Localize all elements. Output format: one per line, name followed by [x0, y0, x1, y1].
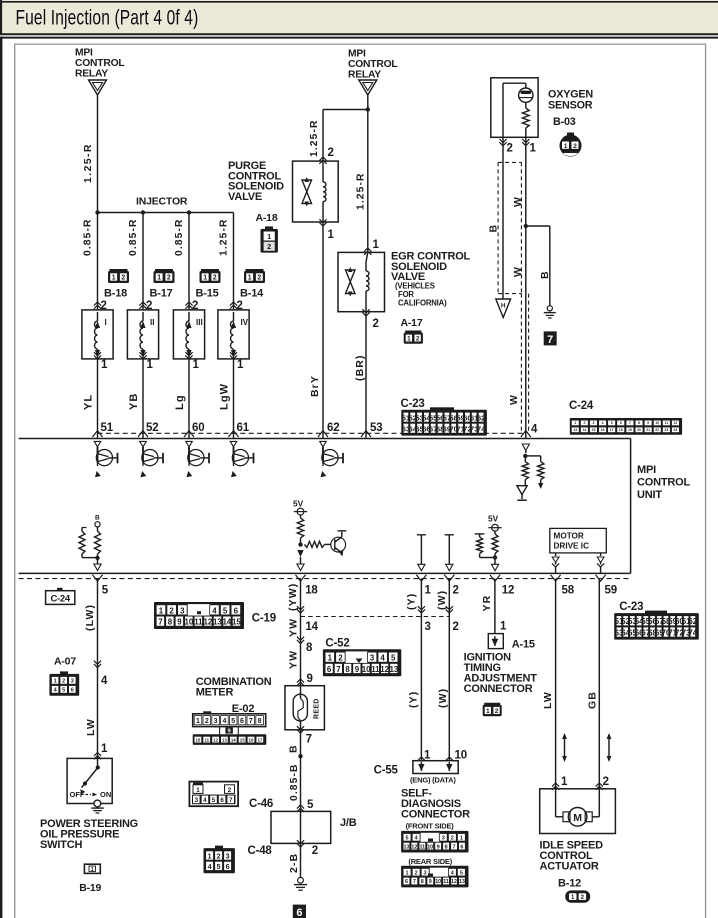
svg-text:UNIT: UNIT	[637, 489, 662, 501]
label (W) lower	[437, 688, 449, 708]
node pin12	[491, 555, 498, 571]
wire junction to body ground	[526, 226, 550, 306]
pin 12 label already added; label YR	[481, 595, 493, 612]
wire purge branch drop	[322, 110, 324, 162]
svg-text:10: 10	[185, 618, 194, 627]
svg-text:2: 2	[169, 606, 174, 615]
svg-text:ON: ON	[100, 790, 111, 799]
label B (O2 ground wire)	[488, 224, 500, 233]
svg-text:METER: METER	[196, 687, 234, 699]
svg-text:1: 1	[564, 143, 568, 150]
svg-text:1.25-R: 1.25-R	[219, 218, 230, 256]
svg-text:1: 1	[112, 275, 116, 282]
svg-text:(Y): (Y)	[406, 593, 418, 610]
5V supply (pin 12)	[488, 514, 502, 534]
svg-text:14: 14	[305, 621, 318, 633]
label MPI CONTROL UNIT	[637, 464, 690, 501]
svg-text:2: 2	[213, 275, 217, 282]
label IGNITION TIMING ADJUSTMENT CONNECTOR	[464, 652, 538, 696]
purge valve pin 1	[319, 219, 334, 241]
svg-text:4: 4	[222, 718, 226, 725]
rear side connector block	[401, 866, 468, 888]
label 1.25-R (purge wire)	[309, 119, 320, 157]
svg-text:(ENG) (DATA): (ENG) (DATA)	[410, 776, 456, 785]
svg-text:GB: GB	[586, 691, 598, 709]
svg-text:2: 2	[167, 275, 171, 282]
wire purge to ECU pin 62	[322, 222, 324, 439]
svg-text:4: 4	[415, 836, 418, 842]
svg-text:C-23: C-23	[619, 601, 643, 613]
svg-text:Fuel Injection (Part 4 0f 4): Fuel Injection (Part 4 0f 4)	[16, 5, 199, 29]
C-48 label	[248, 845, 273, 857]
pin 2 (J/B)	[297, 840, 318, 857]
C-55 box	[413, 761, 458, 774]
svg-text:51: 51	[101, 422, 114, 434]
resistor (pin4 right)	[538, 462, 544, 489]
svg-text:VALVE: VALVE	[228, 191, 262, 203]
A-07 label	[54, 656, 76, 668]
svg-text:6: 6	[327, 665, 332, 674]
svg-text:12: 12	[204, 618, 213, 627]
svg-text:MPI: MPI	[637, 464, 656, 476]
svg-text:3: 3	[424, 870, 427, 876]
svg-text:5V: 5V	[293, 499, 304, 509]
label FRONT SIDE	[406, 822, 455, 831]
svg-text:10: 10	[427, 844, 433, 850]
zener to rail (pin4)	[517, 480, 527, 501]
svg-text:8: 8	[345, 665, 350, 674]
svg-text:8: 8	[258, 718, 262, 725]
label YB	[128, 393, 140, 410]
svg-text:8: 8	[445, 844, 448, 850]
label A-17	[401, 317, 423, 329]
svg-text:MOTOR: MOTOR	[554, 532, 584, 541]
svg-text:LW: LW	[85, 718, 97, 736]
ECU pin 52	[138, 422, 158, 437]
label VEHICLES FOR CALIFORNIA	[395, 282, 447, 308]
wire injector 1 to ECU	[97, 359, 99, 439]
idle speed control actuator box	[540, 789, 616, 834]
svg-text:MPI: MPI	[348, 49, 366, 60]
svg-text:5: 5	[406, 836, 409, 842]
A-15 box	[488, 634, 503, 649]
pin 1 (A-15)	[500, 621, 507, 633]
injector 1 pin 2	[94, 300, 107, 312]
svg-text:2: 2	[453, 585, 459, 597]
svg-text:74: 74	[477, 425, 486, 434]
svg-text:3: 3	[370, 654, 375, 663]
switch OFF ON labels	[70, 790, 112, 799]
svg-text:2: 2	[312, 845, 318, 857]
svg-text:C-48: C-48	[248, 845, 273, 857]
svg-text:4: 4	[212, 606, 217, 615]
svg-text:52: 52	[146, 422, 158, 434]
svg-text:13: 13	[404, 844, 410, 850]
svg-text:RELAY: RELAY	[348, 70, 381, 81]
label PURGE CONTROL SOLENOID VALVE	[228, 160, 284, 203]
svg-text:59: 59	[605, 585, 617, 597]
svg-text:12: 12	[213, 737, 218, 742]
svg-text:17: 17	[257, 737, 262, 742]
svg-text:YL: YL	[83, 394, 95, 410]
svg-text:4: 4	[380, 654, 385, 663]
switch lever	[80, 758, 100, 794]
svg-text:B-15: B-15	[196, 288, 219, 300]
svg-text:15: 15	[232, 618, 241, 627]
power steering switch box	[67, 758, 112, 803]
oxygen sensor box	[491, 78, 538, 138]
wire relay1 to injector bus	[97, 95, 99, 213]
svg-text:B: B	[539, 270, 551, 279]
purge control solenoid valve box	[293, 161, 339, 222]
svg-text:6: 6	[296, 907, 302, 918]
injector 4 (box with coil)	[218, 310, 249, 359]
svg-text:7: 7	[229, 797, 233, 804]
svg-text:12: 12	[380, 665, 389, 674]
svg-text:74: 74	[688, 628, 697, 637]
ECU pin 60	[184, 422, 204, 437]
svg-text:5: 5	[217, 864, 221, 871]
pin4 input arrow	[522, 444, 529, 453]
wire LW (pin 58)	[555, 579, 557, 789]
ISC pin 1	[552, 776, 568, 790]
front side connector block	[401, 831, 468, 853]
label 2-B	[288, 853, 300, 873]
label POWER STEERING OIL PRESSURE SWITCH	[40, 818, 138, 851]
label B-17	[150, 288, 173, 300]
svg-text:1: 1	[407, 335, 411, 342]
pin 1 (switch)	[94, 743, 108, 759]
label LW	[85, 718, 97, 736]
wire pin5 to switch	[97, 579, 99, 759]
svg-text:1: 1	[147, 359, 154, 371]
wire relay2 down	[367, 95, 369, 252]
driver transistor (pin 60)	[186, 441, 209, 477]
label GB (ISC)	[586, 691, 598, 709]
svg-text:13: 13	[573, 428, 577, 432]
svg-text:2: 2	[228, 787, 232, 794]
svg-text:3: 3	[195, 797, 199, 804]
svg-text:2: 2	[451, 836, 454, 842]
svg-text:C-24: C-24	[50, 593, 70, 604]
driver transistor (pin 61)	[230, 441, 253, 477]
internal pull line (pin 2)	[445, 535, 454, 571]
wire injector 2 drop	[142, 213, 144, 310]
C-52 label	[325, 638, 349, 650]
label COMBINATION METER	[196, 676, 272, 699]
svg-text:1: 1	[101, 359, 108, 371]
svg-text:13: 13	[459, 879, 465, 885]
C-24 label (right)	[569, 400, 594, 412]
resistor (pin4 left)	[522, 456, 528, 480]
wire W (O2 pin1) to ECU pin 4	[525, 137, 527, 438]
svg-text:17: 17	[610, 428, 614, 432]
svg-text:13: 13	[213, 618, 222, 627]
svg-text:1: 1	[486, 708, 490, 715]
svg-text:H: H	[501, 303, 506, 310]
svg-text:62: 62	[477, 414, 486, 423]
MPI control relay (right) symbol	[359, 80, 377, 95]
svg-text:6: 6	[220, 797, 224, 804]
svg-text:2: 2	[62, 679, 65, 685]
svg-text:9: 9	[307, 673, 313, 685]
shield dashed box (B wire)	[498, 162, 521, 293]
diode arrow (pin18)	[297, 550, 304, 571]
wire injector 3 to ECU	[188, 359, 190, 439]
svg-text:BrY: BrY	[309, 375, 321, 397]
svg-text:2: 2	[217, 854, 221, 861]
content left border	[0, 37, 2, 918]
label 0.85-B	[289, 763, 300, 801]
purge valve coil	[323, 161, 326, 222]
ECU bottom pin 2	[444, 575, 458, 597]
wire injector 3 drop	[188, 213, 190, 310]
connector badge A-18	[261, 226, 278, 252]
svg-text:SWITCH: SWITCH	[40, 839, 82, 851]
C-23 connector (bottom)	[614, 611, 699, 640]
svg-text:A-18: A-18	[256, 212, 278, 224]
svg-text:18: 18	[305, 585, 318, 597]
label B-03	[553, 116, 576, 128]
svg-text:(REAR SIDE): (REAR SIDE)	[408, 857, 452, 866]
wire injector 2 to ECU	[142, 359, 144, 439]
ECU bottom pin 12	[490, 575, 514, 597]
svg-text:60: 60	[192, 422, 204, 434]
svg-text:53: 53	[370, 422, 382, 434]
svg-text:DRIVE IC: DRIVE IC	[554, 542, 590, 551]
svg-text:3: 3	[226, 854, 230, 861]
MPI control relay (left) label	[75, 48, 125, 80]
svg-text:3: 3	[593, 421, 595, 425]
svg-text:C-55: C-55	[374, 765, 399, 777]
svg-text:5: 5	[611, 421, 613, 425]
svg-text:8: 8	[638, 421, 640, 425]
wire B (O2 pin2) to ground	[502, 137, 504, 299]
svg-text:4: 4	[531, 424, 538, 436]
svg-text:8: 8	[421, 879, 424, 885]
header title	[16, 5, 199, 29]
MPI unit top dashed edge	[98, 432, 526, 434]
svg-text:6: 6	[620, 421, 622, 425]
svg-text:5: 5	[223, 606, 228, 615]
svg-text:1.25-R: 1.25-R	[356, 172, 367, 210]
svg-text:OFF: OFF	[70, 790, 85, 799]
connector badge (ignition timing)	[483, 703, 502, 717]
EGR valve symbol	[346, 267, 356, 297]
svg-text:5: 5	[102, 585, 109, 597]
pin 7 (meter out)	[297, 726, 312, 745]
label E-02	[232, 703, 255, 715]
EGR valve pin 1	[364, 239, 379, 255]
svg-text:SENSOR: SENSOR	[548, 99, 593, 111]
svg-text:1: 1	[248, 275, 252, 282]
monitor transistor (pin18)	[331, 531, 347, 557]
svg-text:W: W	[512, 266, 524, 277]
svg-text:1: 1	[373, 239, 380, 251]
svg-text:2: 2	[267, 242, 271, 251]
svg-text:J/B: J/B	[340, 817, 357, 829]
label (BR)	[354, 354, 366, 381]
svg-text:ACTUATOR: ACTUATOR	[540, 861, 599, 873]
svg-text:14: 14	[583, 428, 587, 432]
svg-text:5: 5	[460, 870, 463, 876]
oxygen sensor internals	[503, 83, 533, 137]
svg-text:62: 62	[688, 617, 697, 626]
svg-text:C-24: C-24	[569, 400, 594, 412]
svg-text:2-B: 2-B	[288, 853, 300, 873]
EGR control solenoid valve box	[338, 252, 385, 311]
svg-text:11: 11	[371, 665, 380, 674]
driver transistor (pin 62)	[320, 441, 343, 477]
svg-text:LW: LW	[542, 691, 554, 709]
svg-text:24: 24	[674, 428, 678, 432]
svg-text:C-52: C-52	[325, 638, 349, 650]
C-24 outline box (left)	[46, 588, 75, 605]
svg-text:10: 10	[455, 750, 467, 762]
label W (upper)	[512, 196, 524, 207]
svg-text:10: 10	[655, 421, 659, 425]
svg-text:W: W	[512, 196, 524, 207]
svg-text:1: 1	[193, 359, 200, 371]
svg-text:1.25-R: 1.25-R	[309, 119, 320, 157]
svg-text:Lg: Lg	[174, 394, 186, 410]
svg-text:5: 5	[307, 799, 314, 811]
svg-text:B-18: B-18	[104, 288, 127, 300]
svg-text:RELAY: RELAY	[75, 69, 108, 80]
svg-text:19: 19	[628, 428, 632, 432]
ISC motor	[556, 789, 600, 826]
svg-text:YW: YW	[288, 650, 300, 669]
svg-text:11: 11	[204, 737, 209, 742]
svg-text:9: 9	[228, 729, 231, 735]
C-23 connector (mid)	[401, 407, 487, 435]
svg-text:(BR): (BR)	[354, 354, 366, 381]
svg-text:2: 2	[257, 275, 261, 282]
svg-text:5: 5	[212, 797, 216, 804]
svg-text:7: 7	[249, 718, 253, 725]
svg-text:1: 1	[328, 654, 333, 663]
label 1.25-R (relay1 wire)	[83, 143, 94, 183]
svg-text:I: I	[105, 318, 107, 327]
resistor pair above pin 5	[79, 515, 101, 571]
svg-text:12: 12	[411, 844, 417, 850]
svg-text:1: 1	[328, 229, 335, 241]
svg-text:7: 7	[547, 334, 553, 346]
label LgW	[219, 383, 231, 410]
svg-text:13: 13	[390, 665, 399, 674]
ground triangle H	[496, 299, 511, 318]
svg-text:(W): (W)	[437, 688, 449, 708]
svg-text:4: 4	[203, 797, 207, 804]
internal pull line (pin 1)	[417, 535, 426, 571]
svg-text:1: 1	[424, 750, 431, 762]
svg-text:11: 11	[443, 879, 449, 885]
MPI control relay (left) symbol	[89, 80, 107, 95]
motor drive output (pin 59)	[597, 553, 604, 574]
5V supply (pin 18)	[293, 499, 307, 518]
label SELF-DIAGNOSIS CONNECTOR	[401, 788, 470, 821]
svg-text:4: 4	[208, 864, 212, 871]
svg-text:0.85-B: 0.85-B	[289, 763, 300, 801]
label B-15	[196, 288, 219, 300]
svg-text:CONTROL: CONTROL	[348, 59, 398, 70]
label (Y) lower	[408, 691, 420, 708]
svg-text:A-07: A-07	[54, 656, 76, 668]
label INJECTOR	[136, 196, 188, 208]
svg-text:7: 7	[453, 844, 456, 850]
svg-text:21: 21	[646, 428, 650, 432]
svg-text:2: 2	[507, 143, 513, 155]
svg-text:10: 10	[435, 879, 441, 885]
svg-text:C-46: C-46	[249, 798, 273, 810]
svg-text:61: 61	[237, 422, 250, 434]
ECU pin 4	[521, 424, 538, 438]
svg-text:CALIFORNIA): CALIFORNIA)	[398, 298, 447, 307]
svg-text:1: 1	[574, 421, 576, 425]
connector badge B-15	[200, 269, 221, 283]
label IDLE SPEED CONTROL ACTUATOR	[540, 840, 604, 873]
svg-text:4: 4	[101, 675, 108, 687]
C-19 label	[252, 613, 276, 625]
A-15 label	[512, 639, 535, 651]
pin 1 (diag)	[418, 750, 431, 762]
flow arrow (GB)	[607, 733, 612, 762]
svg-text:1: 1	[159, 606, 164, 615]
svg-text:2: 2	[495, 708, 499, 715]
svg-text:11: 11	[194, 618, 203, 627]
svg-text:CONNECTOR: CONNECTOR	[464, 683, 533, 695]
svg-text:1: 1	[157, 275, 161, 282]
A-07 connector block	[49, 671, 79, 695]
svg-text:11: 11	[419, 844, 425, 850]
ECU bottom pin 5	[93, 575, 109, 597]
svg-text:1: 1	[196, 787, 200, 794]
svg-text:3: 3	[214, 718, 218, 725]
resistor right (pin12)	[492, 534, 498, 558]
svg-text:1: 1	[91, 867, 94, 873]
MPI control relay (right) label	[348, 49, 398, 81]
wire meter to J/B	[300, 730, 302, 812]
E-02 middle cell 9	[220, 727, 239, 735]
svg-text:2: 2	[415, 870, 418, 876]
svg-text:18: 18	[619, 428, 623, 432]
svg-text:6: 6	[71, 688, 74, 694]
label W (bottom)	[508, 394, 520, 405]
label OXYGEN SENSOR	[548, 89, 593, 112]
label (LW)	[84, 604, 96, 631]
svg-text:LgW: LgW	[219, 383, 231, 410]
label B (meter)	[288, 744, 300, 753]
label 1.25-R (relay2 wire)	[356, 172, 367, 210]
MPI unit bottom dashed edge	[19, 578, 631, 580]
svg-text:0.85-R: 0.85-R	[174, 218, 185, 256]
resistor left (pin12)	[475, 534, 495, 558]
svg-text:YR: YR	[481, 595, 493, 612]
C-48 connector block	[204, 846, 235, 874]
svg-text:1: 1	[203, 275, 207, 282]
combination meter box (reed)	[285, 686, 324, 730]
label B-19	[79, 882, 101, 894]
shield dashes along W wire	[521, 294, 528, 431]
svg-text:6: 6	[405, 879, 408, 885]
svg-text:10: 10	[195, 737, 200, 742]
svg-text:INJECTOR: INJECTOR	[136, 196, 188, 208]
svg-text:3: 3	[425, 621, 431, 633]
svg-text:9: 9	[177, 618, 182, 627]
svg-text:6: 6	[240, 718, 244, 725]
svg-text:B-12: B-12	[558, 878, 581, 890]
label YW (upper)	[288, 618, 300, 637]
